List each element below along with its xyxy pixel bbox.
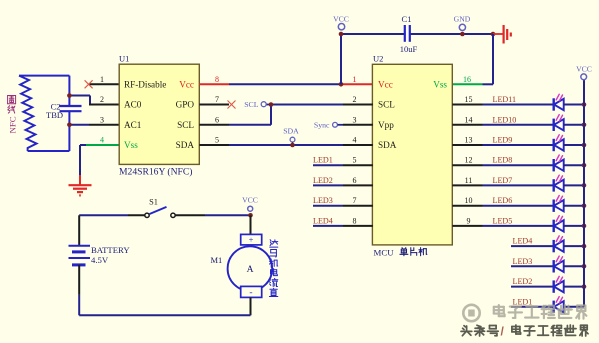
svg-text:C1: C1 (402, 14, 412, 24)
svg-text:LED1: LED1 (513, 297, 533, 306)
svg-text:VCC: VCC (333, 14, 349, 23)
svg-text:SCL: SCL (378, 100, 395, 110)
svg-text:LED2: LED2 (513, 277, 533, 286)
svg-text:10: 10 (465, 196, 473, 205)
svg-text:LED9: LED9 (493, 136, 513, 145)
svg-text:4: 4 (353, 136, 357, 145)
svg-text:M24SR16Y (NFC): M24SR16Y (NFC) (119, 166, 192, 177)
svg-text:AC0: AC0 (124, 100, 142, 110)
svg-text:LED10: LED10 (493, 115, 517, 124)
svg-text:16: 16 (463, 75, 471, 84)
svg-text:LED2: LED2 (313, 176, 333, 185)
svg-text:S1: S1 (149, 198, 158, 207)
svg-text:6: 6 (215, 115, 219, 124)
svg-text:LED3: LED3 (513, 257, 533, 266)
svg-text:15: 15 (465, 95, 473, 104)
svg-text:10uF: 10uF (400, 44, 418, 54)
svg-text:9: 9 (467, 216, 471, 225)
svg-text:1: 1 (353, 75, 357, 84)
svg-text:SDA: SDA (176, 140, 195, 150)
svg-text:7: 7 (353, 196, 357, 205)
svg-text:Sync: Sync (314, 121, 330, 130)
svg-text:A: A (247, 265, 254, 275)
svg-text:12: 12 (465, 156, 473, 165)
svg-text:LED4: LED4 (313, 216, 333, 225)
svg-text:M1: M1 (211, 255, 223, 265)
svg-text:Vcc: Vcc (378, 79, 393, 89)
svg-text:+: + (249, 235, 254, 245)
svg-text:Vss: Vss (433, 79, 447, 89)
svg-text:LED6: LED6 (493, 196, 513, 205)
svg-text:NFC: NFC (8, 116, 18, 133)
svg-text:VCC: VCC (242, 196, 258, 205)
svg-text:Vpp: Vpp (378, 120, 394, 130)
svg-text:BATTERY: BATTERY (91, 245, 130, 255)
svg-text:1: 1 (100, 75, 104, 84)
svg-text:5: 5 (353, 156, 357, 165)
svg-text:VCC: VCC (576, 64, 592, 73)
svg-text:13: 13 (465, 136, 473, 145)
svg-text:4.5V: 4.5V (91, 255, 109, 265)
svg-text:6: 6 (353, 176, 357, 185)
svg-text:RF-Disable: RF-Disable (124, 79, 166, 89)
svg-text:U1: U1 (119, 54, 129, 64)
svg-text:LED5: LED5 (493, 216, 513, 225)
svg-text:Vcc: Vcc (179, 79, 194, 89)
svg-text:SCL: SCL (177, 120, 194, 130)
svg-text:GND: GND (454, 14, 471, 23)
svg-text:LED7: LED7 (493, 176, 513, 185)
svg-text:8: 8 (353, 216, 357, 225)
svg-text:2: 2 (100, 95, 104, 104)
svg-text:LED8: LED8 (493, 156, 513, 165)
svg-text:3: 3 (353, 115, 357, 124)
svg-text:LED11: LED11 (493, 95, 517, 104)
svg-text:SDA: SDA (378, 140, 397, 150)
svg-text:GPO: GPO (176, 100, 195, 110)
svg-text:U2: U2 (373, 54, 383, 64)
svg-text:14: 14 (465, 115, 473, 124)
svg-text:SCL: SCL (244, 100, 259, 109)
svg-text:MCU: MCU (374, 247, 395, 257)
svg-text:AC1: AC1 (124, 120, 142, 130)
svg-text:2: 2 (353, 95, 357, 104)
svg-text:SDA: SDA (283, 127, 299, 136)
svg-text:-: - (249, 288, 252, 298)
svg-text:TBD: TBD (46, 110, 63, 120)
svg-text:Vss: Vss (124, 140, 138, 150)
svg-text:4: 4 (100, 136, 104, 145)
svg-text:5: 5 (215, 136, 219, 145)
svg-text:8: 8 (215, 75, 219, 84)
svg-text:LED1: LED1 (313, 156, 333, 165)
svg-text:LED4: LED4 (513, 237, 533, 246)
svg-text:11: 11 (465, 176, 473, 185)
svg-text:3: 3 (100, 115, 104, 124)
svg-text:7: 7 (215, 95, 219, 104)
svg-text:LED3: LED3 (313, 196, 333, 205)
